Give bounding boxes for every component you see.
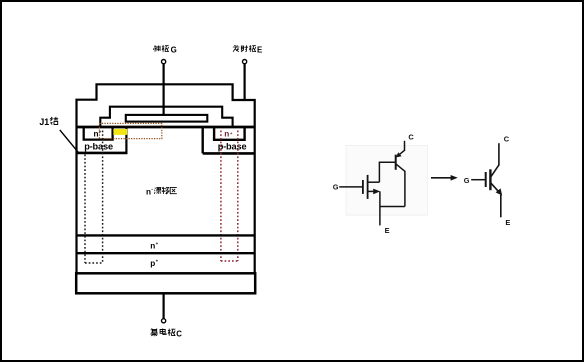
yellow channel highlight (113, 129, 127, 135)
transform arrow (431, 177, 452, 179)
svg-text:C: C (176, 330, 182, 339)
right n+ source box (214, 128, 245, 140)
silicon surface line (77, 126, 255, 129)
right p-base bottom (203, 152, 255, 155)
svg-text:G: G (171, 45, 177, 54)
wire emitter down (500, 195, 502, 217)
n+/p+ boundary line (77, 252, 255, 254)
svg-text:E: E (505, 218, 510, 227)
label 集电极C (150, 328, 175, 336)
right p-base left boundary (201, 128, 203, 153)
wire collector C (163, 295, 165, 319)
collector terminal C circle (162, 319, 166, 323)
wire collector C top (404, 141, 406, 151)
n+ buffer layer top line (77, 234, 255, 236)
svg-text:J1: J1 (39, 117, 49, 127)
wire emitter E down to ledge (244, 64, 246, 100)
svg-text:G: G (333, 182, 339, 191)
svg-text:p-base: p-base (218, 142, 247, 152)
wire source with arrow (368, 190, 374, 192)
svg-text:E: E (257, 45, 262, 54)
collector diagonal (491, 165, 499, 177)
label 栅极G (153, 45, 169, 52)
svg-text:G: G (464, 176, 470, 185)
svg-text:n: n (94, 130, 99, 139)
label 发射极E (233, 45, 256, 52)
svg-text:C: C (504, 135, 510, 144)
device body outline with emitter metal mesa (77, 84, 255, 273)
MOSFET gate bar (362, 180, 364, 194)
svg-text:+: + (156, 259, 159, 264)
MOSFET channel bar (367, 175, 369, 199)
svg-text:C: C (408, 133, 414, 142)
wire gate (339, 186, 363, 188)
leader line J1 (60, 130, 79, 153)
wire gate (471, 179, 485, 181)
svg-text:n: n (224, 130, 229, 139)
IGBT gate bar (485, 172, 487, 187)
svg-text:+: + (156, 241, 159, 246)
wire collector up (498, 143, 500, 165)
light gray backdrop of equivalent circuit (346, 146, 427, 216)
svg-text:E: E (385, 226, 390, 235)
IGBT body bar (489, 169, 491, 190)
emitter diagonal with arrow (491, 183, 498, 191)
svg-text:-: - (151, 187, 153, 193)
svg-text:+: + (230, 131, 233, 136)
orange dotted channel region box (99, 123, 161, 138)
svg-text:p-base: p-base (84, 142, 113, 152)
left p-base bottom (77, 152, 128, 155)
dark red dotted line pair (right) (220, 131, 222, 262)
collector metal plate (76, 273, 255, 293)
svg-text:p: p (150, 259, 155, 268)
PNP emitter diagonal with arrow to bar (400, 150, 405, 154)
gate oxide step outline (100, 107, 232, 127)
svg-text:n: n (150, 242, 155, 251)
left n+ source box (84, 128, 113, 140)
wire source to E (379, 191, 381, 225)
black dotted depletion line left pair (84, 155, 86, 264)
wire drain riser (378, 162, 380, 182)
wire gate G down to poly gate (163, 64, 165, 117)
PNP base bar (395, 155, 397, 170)
wire collector drop (404, 171, 406, 207)
wire base (379, 161, 396, 163)
gate terminal G circle (162, 60, 166, 64)
left p-base right boundary (125, 128, 127, 153)
polysilicon gate bar (126, 115, 208, 122)
wire bottom (380, 206, 405, 208)
emitter terminal E circle (243, 60, 247, 64)
PNP collector diagonal (396, 164, 405, 171)
wire drain (368, 181, 379, 183)
